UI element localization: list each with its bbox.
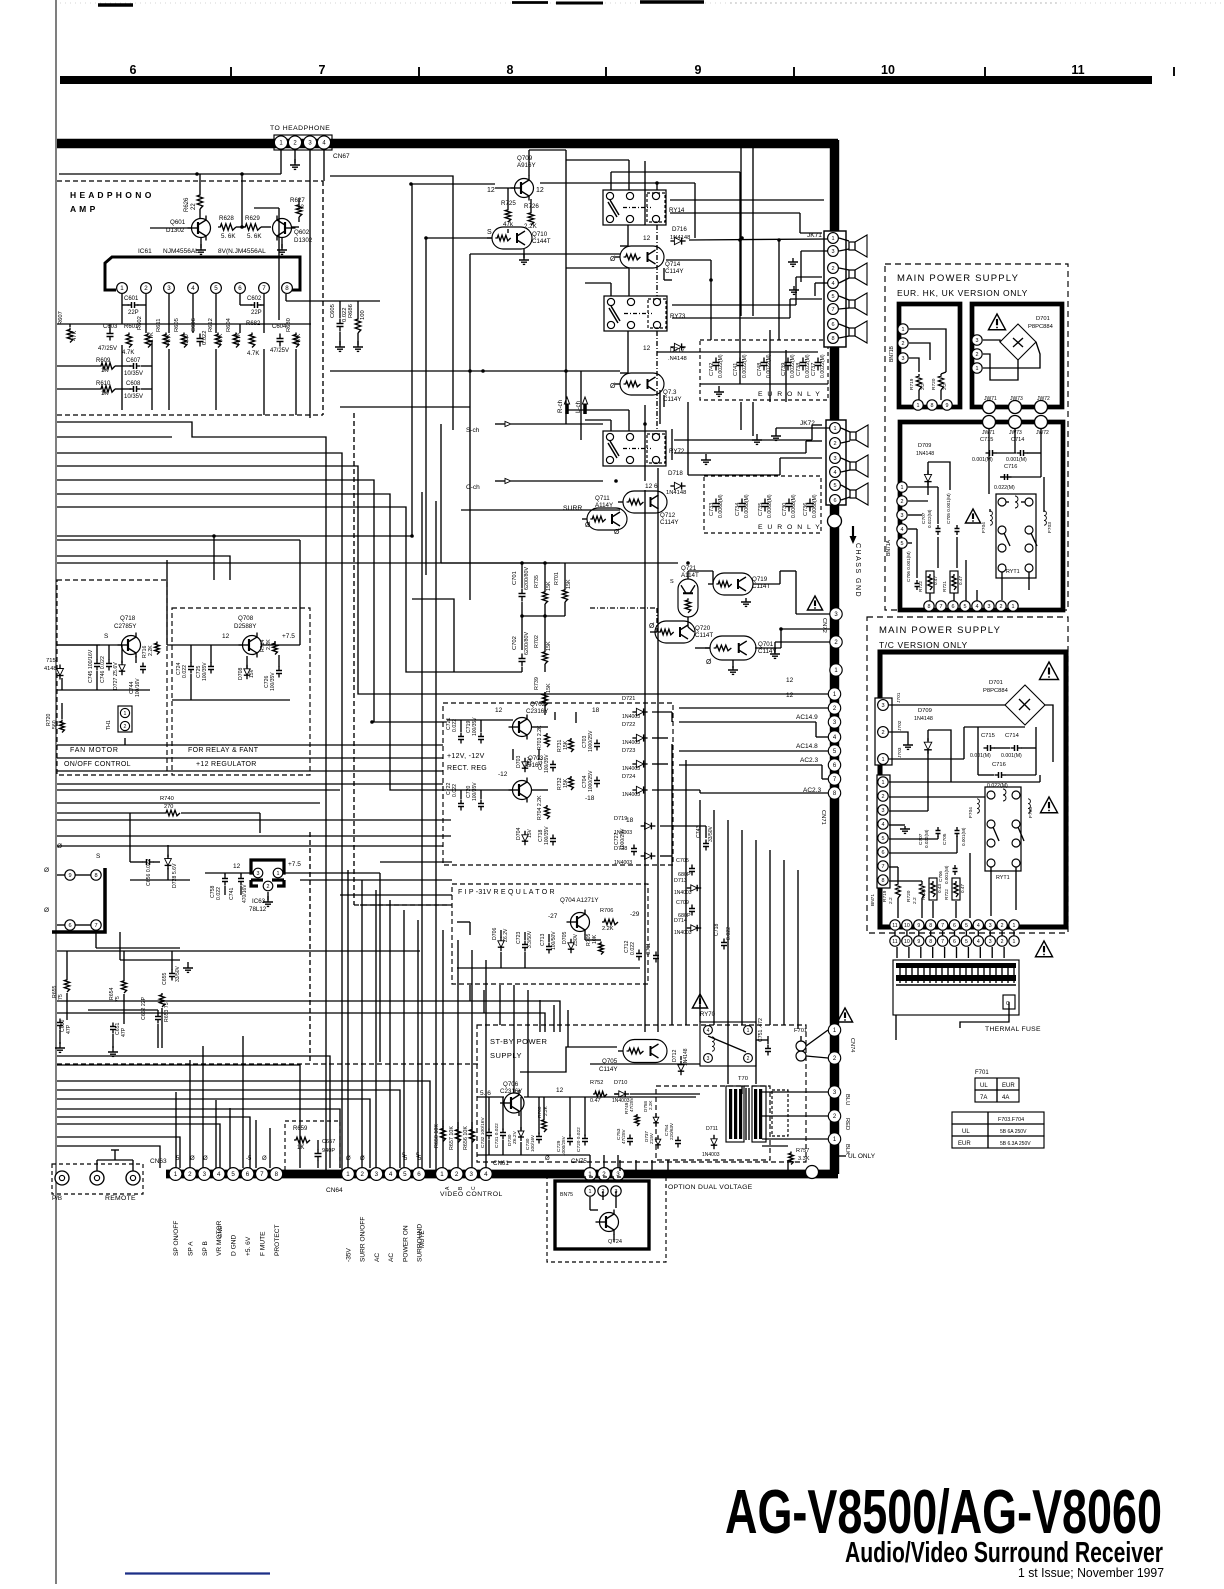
transformer T70 <box>726 1076 788 1142</box>
rect reg dashed box <box>443 703 673 865</box>
node CHASS GND <box>828 514 862 598</box>
capacitor C737 <box>811 354 826 378</box>
wire <box>603 1155 605 1168</box>
wire <box>928 730 951 797</box>
option dual voltage dashed box <box>547 1177 753 1262</box>
wire <box>167 645 243 663</box>
wire <box>189 1060 191 1168</box>
connector CN75 <box>571 1158 587 1165</box>
svg-text:4: 4 <box>707 1028 710 1034</box>
svg-text:3.3K: 3.3K <box>798 1156 810 1162</box>
wire <box>57 770 443 772</box>
svg-text:0.001(M): 0.001(M) <box>1001 753 1022 759</box>
relay RY73 <box>604 296 686 331</box>
wire <box>501 930 549 942</box>
node AC <box>388 1253 395 1262</box>
wire <box>567 1010 569 1047</box>
node TO HEADPHONE <box>270 125 330 132</box>
svg-text:3.3/50V: 3.3/50V <box>527 930 533 948</box>
wire <box>889 836 957 853</box>
wire <box>520 1047 617 1072</box>
svg-text:C601: C601 <box>124 296 139 302</box>
pin t2 <box>878 791 888 801</box>
ground <box>183 962 193 972</box>
resistor R701 <box>554 572 572 602</box>
wire <box>672 277 822 305</box>
capacitor C602 <box>247 296 262 316</box>
wire <box>457 940 459 1168</box>
svg-text:R-ch: R-ch <box>557 399 564 413</box>
node 0.001M <box>961 827 966 846</box>
wire <box>330 370 620 372</box>
capacitor C720 <box>466 782 484 811</box>
svg-text:VIDEO CONTROL: VIDEO CONTROL <box>440 1191 503 1198</box>
warning triangle 5b <box>965 509 980 523</box>
warning triangle 3 <box>837 1008 852 1022</box>
svg-text:4: 4 <box>484 1171 488 1178</box>
wire <box>620 331 628 373</box>
wire <box>620 225 628 246</box>
pin row e <box>924 601 1018 611</box>
pin CN64-5 <box>398 1168 411 1181</box>
svg-text:Ø: Ø <box>190 1156 195 1162</box>
svg-text:1: 1 <box>589 1189 592 1195</box>
pin 1 <box>117 283 128 294</box>
svg-text:1: 1 <box>440 1171 444 1178</box>
svg-text:4148: 4148 <box>44 666 56 672</box>
ground <box>701 454 711 464</box>
warning triangle 5 <box>988 314 1005 330</box>
svg-text:Q718: Q718 <box>120 615 136 622</box>
transistor Q719 <box>708 573 770 595</box>
capacitor C705 <box>676 858 695 878</box>
svg-text:EUR. HK, UK VERSION ONLY: EUR. HK, UK VERSION ONLY <box>897 288 1028 298</box>
svg-text:10: 10 <box>881 63 895 77</box>
wire <box>469 985 471 1001</box>
node +5. 6V <box>245 1236 252 1256</box>
svg-text:Z6.2V: Z6.2V <box>512 1130 518 1144</box>
ground <box>196 244 206 254</box>
svg-text:C738: C738 <box>796 363 802 376</box>
wire <box>657 351 818 353</box>
node cn63 vals <box>176 1156 267 1162</box>
svg-text:Q704 A1271Y: Q704 A1271Y <box>560 897 599 904</box>
pin 6 <box>235 283 246 294</box>
speaker icon 4 <box>849 321 867 343</box>
svg-text:2.2: 2.2 <box>912 897 918 904</box>
svg-text:BN71B: BN71B <box>889 345 895 362</box>
svg-text:JK72: JK72 <box>800 420 815 427</box>
speaker icon 7 <box>850 483 868 505</box>
svg-text:12: 12 <box>643 345 651 352</box>
diode D727 <box>113 661 125 690</box>
svg-text:6200/80V: 6200/80V <box>524 567 530 590</box>
svg-text:15V: 15V <box>527 828 533 838</box>
svg-text:3: 3 <box>375 1171 379 1178</box>
svg-text:JW72: JW72 <box>1036 430 1049 436</box>
wire <box>689 239 828 340</box>
svg-text:1N4003: 1N4003 <box>614 860 632 866</box>
resistor R706 <box>600 908 618 932</box>
pin CN63-4 <box>212 1168 225 1181</box>
svg-text:3: 3 <box>203 1171 207 1178</box>
wire <box>57 789 340 791</box>
svg-text:C-ch: C-ch <box>466 484 480 491</box>
node S <box>487 229 492 236</box>
svg-text:C730: C730 <box>782 503 788 516</box>
pin CN64-4 <box>384 1168 397 1181</box>
pin h3 <box>1035 416 1048 429</box>
node GND small <box>218 1226 224 1238</box>
svg-text:12: 12 <box>495 707 503 714</box>
svg-text:RED: RED <box>844 1118 850 1130</box>
wire <box>741 402 753 436</box>
svg-text:MUTE: MUTE <box>419 1230 426 1248</box>
svg-text:Ø: Ø <box>610 383 616 390</box>
svg-text:D709: D709 <box>918 443 931 449</box>
capacitor C748 <box>757 354 772 378</box>
svg-text:D727 Z5.6V: D727 Z5.6V <box>113 662 119 690</box>
wire <box>57 1013 545 1032</box>
svg-text:D704: D704 <box>516 827 522 840</box>
wire <box>202 1046 204 1168</box>
wire <box>57 875 91 925</box>
diode D705 <box>562 931 579 953</box>
svg-text:2: 2 <box>833 441 836 447</box>
svg-text:Ø: Ø <box>44 907 49 914</box>
svg-text:100: 100 <box>360 310 366 320</box>
wire <box>727 820 729 1084</box>
issue note <box>1018 1566 1164 1580</box>
wire <box>565 150 567 424</box>
speaker icon 5 <box>850 425 868 447</box>
fuse F703e <box>1044 511 1053 533</box>
diode bridge D701t <box>983 680 1045 725</box>
svg-text:7: 7 <box>941 923 944 929</box>
svg-text:R629: R629 <box>245 215 260 222</box>
svg-text:4: 4 <box>389 1171 393 1178</box>
svg-text:D709: D709 <box>918 708 932 714</box>
svg-text:4A: 4A <box>1002 1095 1009 1101</box>
node L-ch <box>575 397 588 414</box>
wire <box>57 1146 160 1168</box>
svg-text:C733: C733 <box>709 503 715 516</box>
ground <box>752 434 762 444</box>
wire <box>529 150 566 176</box>
node C-ch <box>466 478 511 491</box>
svg-text:BN75: BN75 <box>560 1192 573 1198</box>
resistor R719e <box>909 374 926 390</box>
wire <box>741 830 743 1025</box>
svg-text:5: 5 <box>882 836 885 842</box>
wire <box>511 423 603 425</box>
wire <box>522 664 545 715</box>
svg-text:D714: D714 <box>674 918 687 924</box>
wire <box>412 599 454 672</box>
svg-text:CN61: CN61 <box>493 1160 509 1167</box>
svg-text:0.022: 0.022 <box>216 887 222 900</box>
capacitor C715e <box>972 437 997 463</box>
svg-text:6: 6 <box>882 850 885 856</box>
wire <box>619 1160 621 1171</box>
wire <box>57 1056 330 1168</box>
wire <box>889 797 928 825</box>
svg-text:C701: C701 <box>512 571 518 585</box>
wire <box>909 329 946 372</box>
pin g1 <box>983 401 996 414</box>
svg-text:D2588Y: D2588Y <box>234 623 256 630</box>
svg-text:OPTION DUAL VOLTAGE: OPTION DUAL VOLTAGE <box>668 1184 753 1191</box>
svg-text:SURR ON/OFF: SURR ON/OFF <box>360 1217 367 1262</box>
svg-text:BN71A: BN71A <box>886 539 892 556</box>
svg-text:1: 1 <box>747 1028 750 1034</box>
svg-text:6200/80V: 6200/80V <box>524 632 530 655</box>
diode D729 <box>507 1127 524 1146</box>
pin sw-8 <box>91 870 101 880</box>
wire <box>57 656 150 690</box>
svg-text:D716: D716 <box>672 226 687 233</box>
pin JK71-6 <box>828 319 839 330</box>
diode D722 <box>622 722 648 746</box>
wire <box>585 420 611 431</box>
wire <box>960 1002 1009 1028</box>
pin 3 <box>828 1086 840 1098</box>
wire <box>978 727 1036 775</box>
svg-text:C114T: C114T <box>695 632 713 639</box>
svg-text:MAIN POWER SUPPLY: MAIN POWER SUPPLY <box>897 273 1019 284</box>
resistor R628 <box>218 215 236 240</box>
svg-text:RY73: RY73 <box>670 313 686 320</box>
svg-text:R604: R604 <box>226 317 232 332</box>
svg-text:1: 1 <box>124 711 127 717</box>
resistor R723t <box>921 878 942 900</box>
capacitor C722 <box>446 782 464 810</box>
wire <box>674 425 822 440</box>
svg-text:3: 3 <box>989 939 992 945</box>
wire <box>513 749 548 790</box>
svg-text:11: 11 <box>892 923 897 929</box>
pin CN72-1 <box>830 664 842 676</box>
node junction4 <box>738 172 781 242</box>
svg-text:1N4003: 1N4003 <box>622 740 640 746</box>
node R-ch <box>557 397 570 414</box>
svg-text:1 st Issue; November 1997: 1 st Issue; November 1997 <box>1018 1566 1164 1580</box>
svg-text:12: 12 <box>786 677 794 684</box>
pin j2 <box>878 727 889 738</box>
svg-text:C715: C715 <box>981 733 995 739</box>
capacitor C726 <box>264 667 282 692</box>
resistor R720 <box>46 713 64 732</box>
pin CN63-7 <box>256 1168 269 1181</box>
title AG-V8500/AG-V8060 <box>725 1478 1162 1547</box>
speaker icon 3 <box>849 293 867 315</box>
svg-text:TO HEADPHONE: TO HEADPHONE <box>270 125 330 132</box>
svg-text:3: 3 <box>257 871 260 877</box>
wire <box>889 705 1053 762</box>
connector BN71 col <box>870 775 890 906</box>
svg-text:MAIN POWER SUPPLY: MAIN POWER SUPPLY <box>879 625 1001 636</box>
wire <box>361 880 363 1168</box>
wire <box>447 790 513 799</box>
wire <box>67 993 158 1024</box>
svg-text:0.022(M): 0.022(M) <box>987 783 1008 789</box>
svg-text:C114Y: C114Y <box>665 268 683 275</box>
wire <box>666 260 711 340</box>
svg-text:R703 2.2K: R703 2.2K <box>537 725 543 750</box>
resistor R732 <box>557 776 573 790</box>
pin CN63-2 <box>184 1168 197 1181</box>
svg-text:5: 5 <box>901 541 904 547</box>
svg-text:5: 5 <box>833 483 836 489</box>
wire <box>617 1155 619 1168</box>
svg-text:D708: D708 <box>238 667 244 680</box>
resistor R731 <box>557 738 573 752</box>
wire <box>644 405 646 481</box>
wire <box>753 571 830 614</box>
wire <box>150 227 191 229</box>
svg-text:EUR: EUR <box>958 1141 971 1147</box>
svg-text:Q714: Q714 <box>665 261 681 268</box>
svg-text:6: 6 <box>238 285 242 292</box>
resistor R605 <box>174 318 190 347</box>
wire <box>989 429 1041 453</box>
svg-text:+12V, -12V: +12V, -12V <box>447 753 485 760</box>
resistor R609 <box>96 358 115 374</box>
svg-text:AC14.8: AC14.8 <box>796 743 818 750</box>
capacitor C709 <box>676 900 695 919</box>
wire <box>651 1160 653 1171</box>
svg-text:C734: C734 <box>735 503 741 516</box>
node SP A <box>187 1241 194 1256</box>
svg-text:12: 12 <box>556 1087 564 1094</box>
svg-text:1: 1 <box>917 403 920 409</box>
diode D703 <box>516 755 533 772</box>
ground <box>788 258 798 266</box>
wire <box>57 1065 300 1168</box>
svg-text:A M P: A M P <box>70 204 96 214</box>
svg-text:Q706: Q706 <box>503 1081 519 1088</box>
svg-text:2: 2 <box>124 724 127 730</box>
fuse table F703 F704 <box>952 1112 1044 1148</box>
svg-text:R735: R735 <box>534 575 540 588</box>
capacitor C712 <box>624 940 642 960</box>
capacitor C739 <box>781 354 796 378</box>
svg-text:0.0022(M): 0.0022(M) <box>718 354 724 378</box>
svg-text:C743: C743 <box>696 825 702 838</box>
relay RYT1t <box>985 787 1024 881</box>
svg-text:C736: C736 <box>803 503 809 516</box>
ground <box>789 286 799 294</box>
svg-text:Q720: Q720 <box>695 625 711 632</box>
svg-text:POWER ON: POWER ON <box>402 1225 409 1262</box>
wire <box>755 840 757 1084</box>
wire <box>688 617 694 632</box>
svg-text:UL: UL <box>962 1129 970 1135</box>
svg-text:D724: D724 <box>622 774 635 780</box>
relay regulator dashed box <box>172 608 310 775</box>
pin CN61-4 <box>479 1168 492 1181</box>
svg-text:TH1: TH1 <box>106 720 112 730</box>
node AC <box>374 1253 381 1262</box>
connector JK72 <box>800 420 846 505</box>
wire <box>425 238 427 575</box>
diode D709e <box>916 443 934 486</box>
wire <box>57 802 320 804</box>
capacitor C717 <box>538 754 556 773</box>
svg-text:10K: 10K <box>592 934 598 944</box>
svg-text:8: 8 <box>929 923 932 929</box>
svg-text:8V(N.JM4556AL: 8V(N.JM4556AL <box>218 248 266 255</box>
wire <box>500 985 528 1097</box>
svg-text:1: 1 <box>1013 923 1016 929</box>
wire bus <box>57 466 828 694</box>
pin JK72-3 <box>830 453 841 464</box>
wire <box>566 410 629 431</box>
svg-text:1N4148: 1N4148 <box>666 490 686 496</box>
svg-text:715: 715 <box>46 658 56 664</box>
wire <box>970 853 1016 918</box>
svg-text:THERMAL FUSE: THERMAL FUSE <box>985 1026 1041 1033</box>
svg-text:CN64: CN64 <box>326 1187 343 1194</box>
wire <box>590 1036 768 1064</box>
svg-text:47P: 47P <box>121 1027 127 1037</box>
svg-text:3: 3 <box>831 249 834 255</box>
svg-text:F704: F704 <box>981 522 987 533</box>
svg-text:8: 8 <box>507 63 514 77</box>
eur psu dashed box <box>885 264 1068 610</box>
svg-text:Q701: Q701 <box>758 641 774 648</box>
wire <box>57 1090 400 1168</box>
svg-text:10: 10 <box>904 939 910 945</box>
capacitor C727 <box>614 828 637 856</box>
wire <box>280 149 282 174</box>
wire <box>839 296 849 309</box>
pin 7 <box>259 283 270 294</box>
capacitor C723 <box>516 930 533 951</box>
svg-text:C114Y: C114Y <box>660 519 678 526</box>
svg-text:C602: C602 <box>247 296 262 302</box>
wire <box>57 366 131 389</box>
node AC14.8 <box>796 743 818 750</box>
svg-text:R722: R722 <box>918 581 923 592</box>
wire <box>908 529 917 578</box>
capacitor C601 <box>124 296 139 316</box>
svg-text:220/63V: 220/63V <box>669 1122 674 1140</box>
wire <box>679 765 828 779</box>
svg-text:F I P -31V R E Q U L A T O R: F I P -31V R E Q U L A T O R <box>458 889 555 896</box>
capacitor C738 <box>796 354 811 378</box>
speaker icon 6 <box>850 455 868 477</box>
wire <box>389 900 391 1168</box>
node +7.5b <box>288 861 301 868</box>
pin g3 <box>1035 401 1048 414</box>
svg-text:Ø: Ø <box>614 529 620 536</box>
svg-text:R752: R752 <box>590 1080 603 1086</box>
svg-text:BLU: BLU <box>844 1094 850 1105</box>
transistor Q703 <box>498 755 544 803</box>
relay RYT1e <box>996 494 1037 578</box>
wire <box>566 160 629 190</box>
diode D704 <box>516 827 533 845</box>
wire <box>983 340 1040 368</box>
wire <box>340 894 452 896</box>
wire <box>323 149 325 181</box>
node 12 left <box>487 187 495 194</box>
diode D710 <box>612 1080 630 1104</box>
svg-text:C741: C741 <box>733 363 739 376</box>
svg-text:J702: J702 <box>897 720 903 731</box>
capacitor C732 <box>480 1117 492 1148</box>
